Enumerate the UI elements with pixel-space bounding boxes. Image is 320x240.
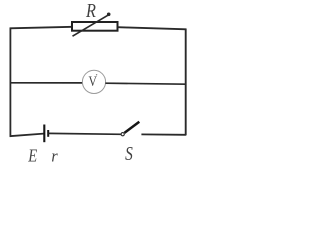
wire middle-right segment [105, 83, 186, 84]
battery long plate (positive) [43, 125, 45, 143]
rheostat arrow (diagonal with dot) [73, 13, 111, 37]
svg-text:E: E [27, 148, 37, 166]
wire bottom-left segment [10, 134, 44, 137]
voltmeter needle tick [96, 74, 97, 75]
wire bottom-middle segment (battery to switch) [49, 132, 122, 135]
wire top-right segment [118, 27, 187, 29]
voltmeter V (meter body) [82, 70, 105, 93]
battery short plate (negative) [47, 130, 49, 137]
switch S pivot [121, 133, 124, 136]
svg-text:S: S [125, 142, 133, 165]
wire left vertical [9, 28, 11, 137]
svg-text:R: R [85, 0, 96, 22]
wire middle-left segment [10, 82, 83, 84]
wire right vertical [185, 29, 187, 136]
wire bottom-right segment [141, 133, 186, 135]
resistor R body (rheostat box) [72, 22, 118, 31]
switch S blade (open) [124, 122, 139, 133]
wire top-left segment [10, 27, 73, 29]
svg-text:r: r [51, 147, 58, 166]
